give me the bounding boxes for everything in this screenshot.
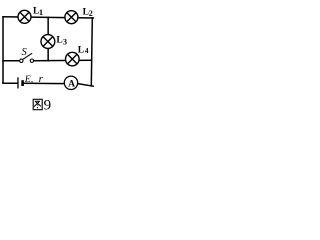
wire L3 bottom to middle wire <box>47 48 49 60</box>
wire left vertical <box>2 17 4 83</box>
label L3 <box>56 36 67 47</box>
ammeter A <box>64 76 77 89</box>
svg-text:4: 4 <box>85 46 89 55</box>
wire bottom right sloped (to bottom-right corner) <box>79 84 94 86</box>
lamp L2 <box>65 11 78 24</box>
label L2 <box>83 8 93 18</box>
wire middle left (left vertical to switch) <box>3 60 20 62</box>
wire bottom left (corner to battery) <box>3 82 18 84</box>
switch S terminal left <box>20 59 23 62</box>
wire middle right (switch to right vertical through L4) <box>34 59 92 61</box>
label L4 <box>78 45 89 55</box>
svg-text:S: S <box>22 47 28 58</box>
svg-text:E,: E, <box>24 74 33 85</box>
svg-text:2: 2 <box>89 9 93 18</box>
wire bottom mid (battery to ammeter region) <box>23 82 78 85</box>
svg-text:r: r <box>39 73 44 85</box>
svg-text:1: 1 <box>39 7 43 17</box>
svg-text:L: L <box>56 36 62 46</box>
wire right vertical <box>91 18 92 86</box>
lamp L3 <box>41 35 55 49</box>
wire top (left corner to right corner) <box>3 17 93 18</box>
svg-text:A: A <box>68 79 75 89</box>
svg-text:L: L <box>78 45 84 55</box>
lamp L4 <box>66 52 80 66</box>
lamp L1 <box>18 10 31 23</box>
battery long plate <box>17 77 19 88</box>
wire vertical node J to L3 top <box>47 17 49 34</box>
svg-text:3: 3 <box>63 37 67 46</box>
svg-text:9: 9 <box>44 97 52 113</box>
switch S terminal right <box>30 59 33 62</box>
switch S lever <box>23 53 33 59</box>
caption figure 9 : hanzi TU (drawn) <box>33 99 42 109</box>
label L1 <box>33 7 43 17</box>
battery short plate <box>21 80 24 86</box>
